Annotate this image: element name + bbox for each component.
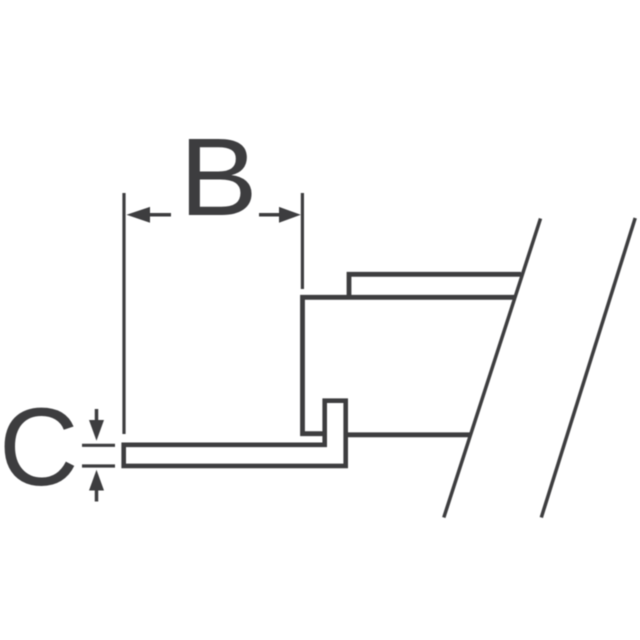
svg-text:B: B — [179, 117, 258, 240]
lead terminal outline (foot strip and upturned end) — [124, 401, 346, 466]
B dimension arrowhead right — [279, 207, 301, 223]
svg-text:C: C — [0, 386, 78, 509]
C dimension arrowhead down — [89, 420, 104, 441]
extension line right (B dimension) — [301, 193, 304, 289]
C dimension arrow up shaft — [95, 487, 99, 502]
B dimension arrow right shaft — [259, 213, 282, 217]
B dimension arrowhead left — [127, 207, 151, 223]
B dimension arrow left shaft — [148, 213, 171, 217]
C dimension tick lower — [82, 464, 115, 467]
body outline (top, left side, bottom-left stub) — [303, 297, 515, 433]
C dimension arrowhead up — [89, 470, 104, 491]
extension line left (B dimension) — [122, 193, 125, 434]
body top rim tab — [349, 274, 521, 299]
body bottom line right of lead — [346, 432, 470, 437]
C dimension tick upper — [82, 444, 115, 447]
break line left — [444, 219, 541, 518]
break line right — [541, 218, 635, 518]
C dimension arrow down shaft — [95, 409, 99, 424]
